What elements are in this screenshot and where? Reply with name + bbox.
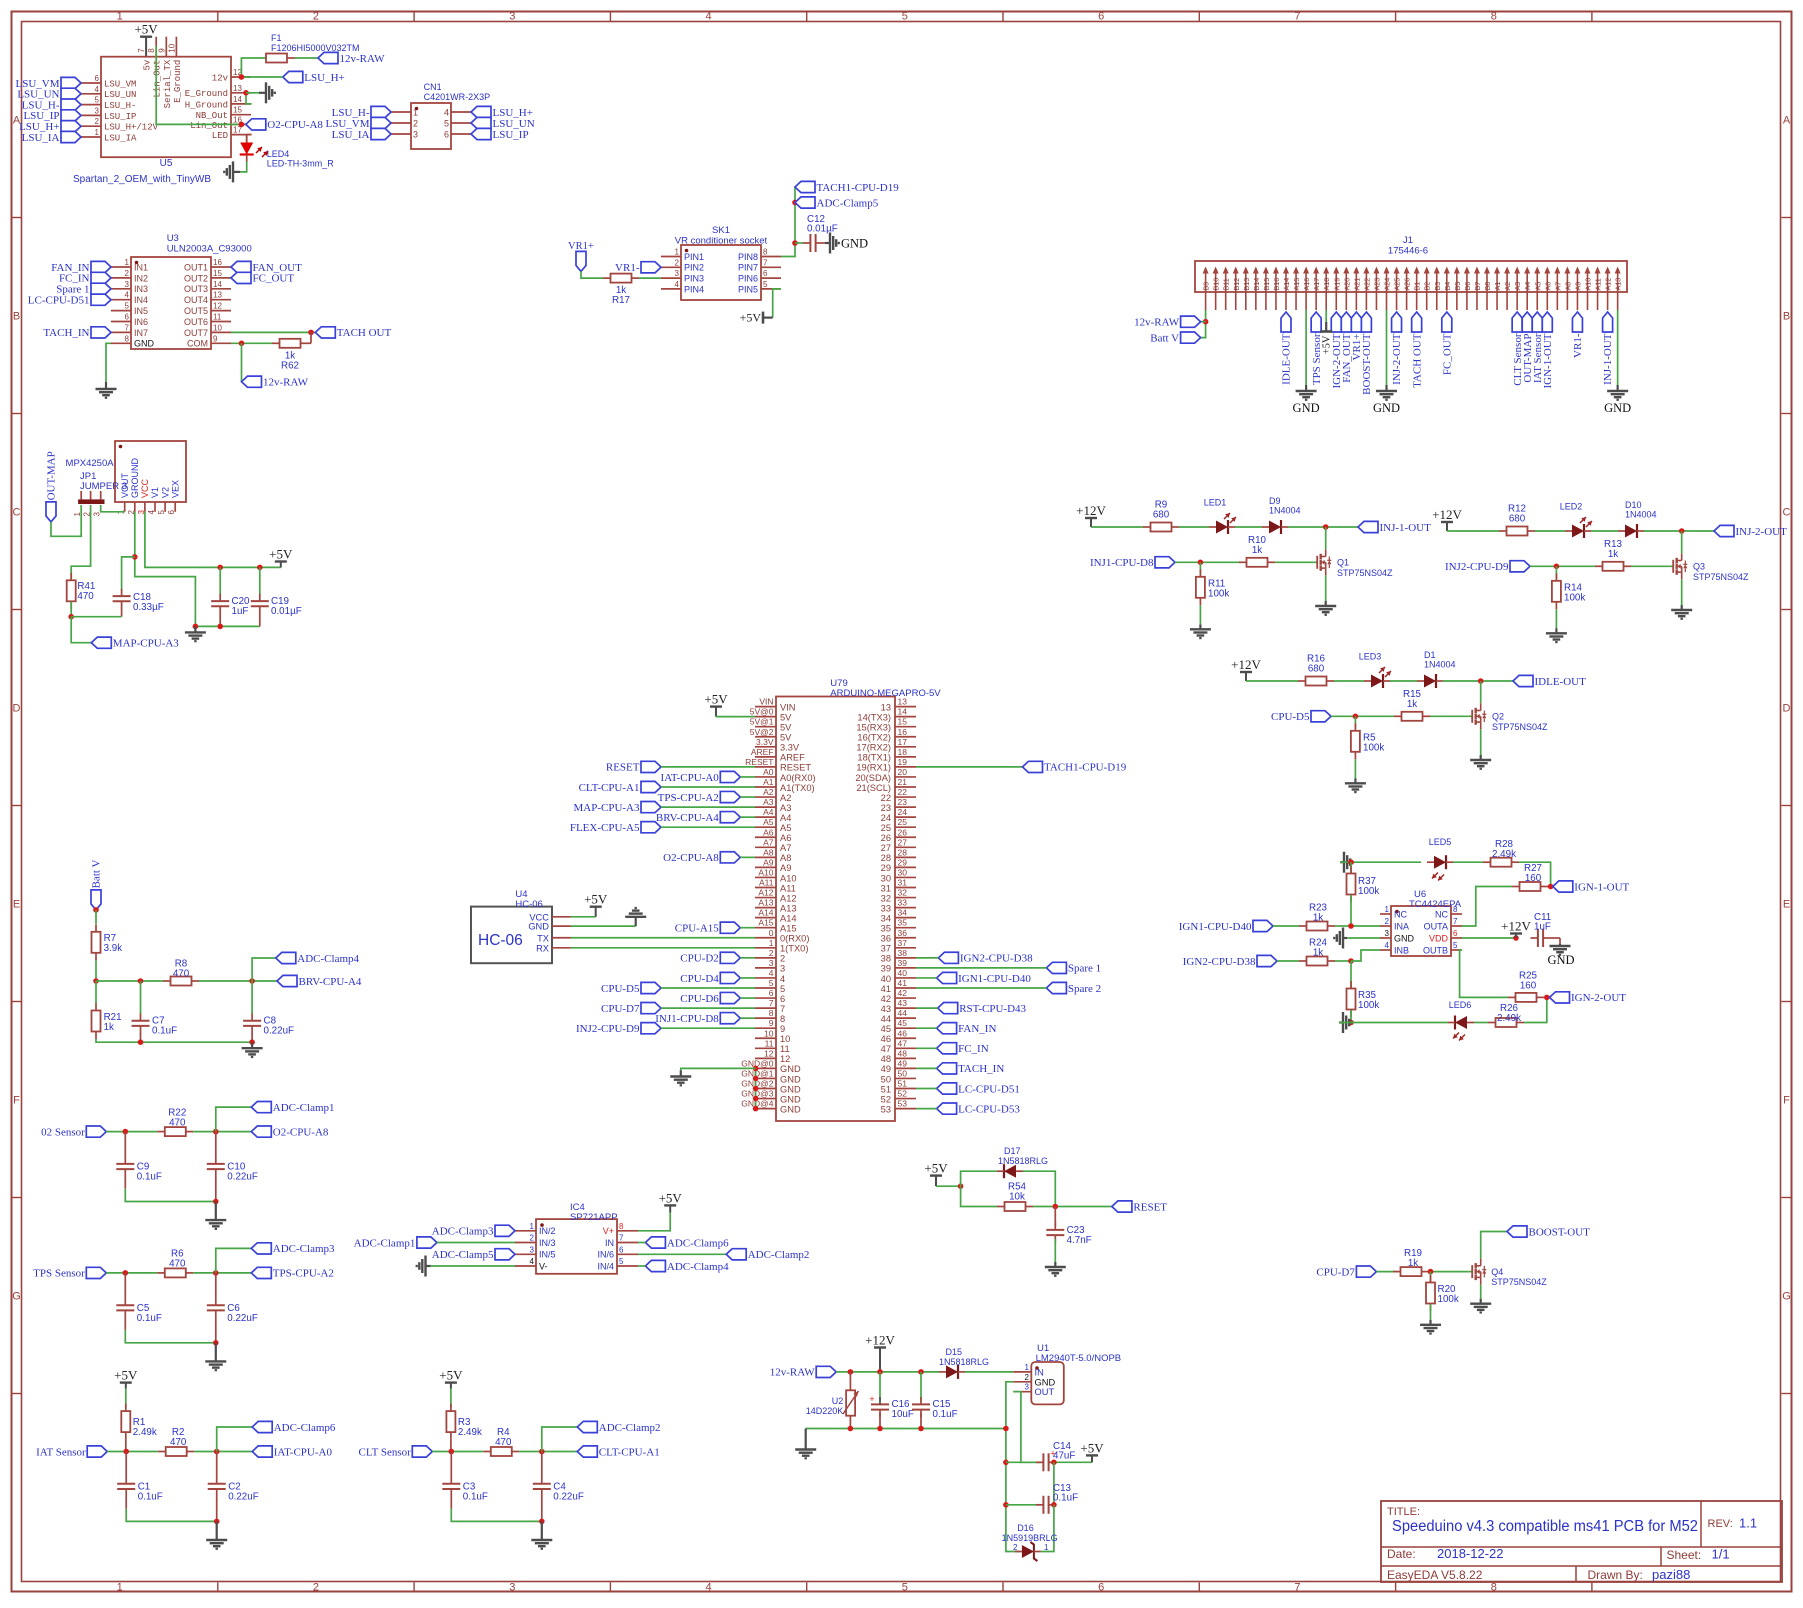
node C-second tap	[213, 1270, 219, 1276]
resistor R20 100k	[1430, 1272, 1432, 1282]
wire drain	[1681, 531, 1683, 553]
svg-text:VR conditioner socket: VR conditioner socket	[675, 236, 768, 247]
svg-text:0.1uF: 0.1uF	[137, 1172, 162, 1183]
LED LED6	[1448, 1000, 1474, 1041]
svg-text:10: 10	[764, 1028, 774, 1038]
svg-text:A3: A3	[780, 803, 791, 813]
svg-text:O2-CPU-A8: O2-CPU-A8	[273, 1126, 329, 1138]
wire to ground	[246, 92, 259, 94]
wire R37 to INA	[1351, 895, 1380, 926]
pin 36	[881, 928, 916, 944]
svg-text:R62: R62	[281, 360, 299, 371]
svg-text:BOOST-OUT: BOOST-OUT	[1361, 333, 1373, 395]
svg-text:RESET: RESET	[780, 763, 811, 773]
svg-text:GND: GND	[1604, 401, 1631, 415]
IC U6 TC4424EPA	[1391, 889, 1462, 956]
pin A10	[1584, 267, 1593, 311]
pin 8 GND	[111, 334, 155, 348]
wire ADC-Clamp1	[437, 1242, 515, 1244]
net flag 12v-RAW	[1134, 316, 1200, 328]
net flag MAP-CPU-A3	[91, 637, 179, 649]
pin 2 PIN2	[661, 258, 704, 272]
svg-text:B3: B3	[1433, 282, 1442, 291]
node C14 right	[1051, 1460, 1057, 1466]
svg-text:Lin_Out: Lin_Out	[153, 60, 163, 98]
svg-text:A0: A0	[763, 767, 774, 777]
pin A15	[755, 918, 797, 934]
net flag INJ-2-OUT	[1391, 312, 1403, 385]
svg-text:2: 2	[780, 954, 785, 964]
net flag BRV-CPU-A4	[656, 812, 740, 824]
svg-text:A15: A15	[758, 918, 773, 928]
svg-text:+5V: +5V	[584, 892, 608, 907]
pin B13	[1242, 267, 1251, 311]
svg-text:A10: A10	[758, 867, 773, 877]
net flag IGN-2-OUT	[1331, 312, 1343, 388]
capacitor C8 0.22uF	[243, 1013, 294, 1036]
svg-text:7: 7	[769, 998, 774, 1008]
svg-text:ADC-Clamp2: ADC-Clamp2	[599, 1422, 661, 1434]
svg-text:D15: D15	[946, 1347, 963, 1357]
svg-text:37: 37	[881, 944, 891, 954]
svg-text:V1: V1	[150, 487, 160, 498]
svg-text:28: 28	[898, 847, 908, 857]
power +5V MPX	[269, 547, 293, 568]
wire C2 column	[216, 1452, 218, 1477]
svg-text:OUT1: OUT1	[184, 262, 208, 272]
svg-text:+12V: +12V	[865, 1333, 895, 1348]
net flag ADC-Clamp5	[432, 1249, 515, 1261]
svg-text:7: 7	[1294, 11, 1300, 23]
node C-first tap	[123, 1449, 129, 1455]
svg-text:FC_OUT: FC_OUT	[1441, 333, 1453, 375]
LED LED1	[1204, 498, 1236, 535]
svg-text:100k: 100k	[1358, 886, 1379, 897]
capacitor C16 10uF polarized	[879, 1372, 881, 1401]
pin 6 VEX	[167, 480, 180, 514]
svg-text:A18: A18	[1322, 278, 1331, 291]
svg-text:0.33µF: 0.33µF	[133, 602, 164, 613]
svg-text:A2: A2	[1503, 282, 1512, 291]
wire C13 right	[1051, 1504, 1054, 1506]
wire C10 column	[215, 1132, 217, 1157]
wire C5 bottom	[124, 1318, 126, 1330]
wire pulldown to ground	[1354, 759, 1356, 778]
IC SK1 VR conditioner socket	[675, 225, 768, 300]
svg-text:D9: D9	[1269, 496, 1281, 506]
svg-text:A9: A9	[780, 863, 791, 873]
svg-text:U2: U2	[832, 1396, 844, 1406]
pin 3 VCC	[137, 478, 150, 514]
wire GROUND pin to C18 and rail	[135, 512, 196, 627]
wire C23 to ground	[1054, 1239, 1056, 1262]
net flag VR1+	[1351, 312, 1363, 360]
net flag TACH OUT	[315, 327, 391, 339]
ground LED4	[224, 161, 240, 182]
svg-text:REV:: REV:	[1708, 1518, 1733, 1530]
net flag LSU_IA	[22, 131, 81, 143]
svg-text:IN/5: IN/5	[539, 1250, 556, 1260]
svg-text:1uF: 1uF	[1534, 922, 1551, 933]
pin 14 OUT3	[184, 280, 231, 294]
jumper JP1 JUMPER 3	[73, 471, 127, 516]
svg-text:TACH_IN: TACH_IN	[43, 327, 89, 339]
pin TX	[537, 933, 571, 943]
svg-text:0: 0	[769, 928, 774, 938]
ground sensor cluster	[206, 1521, 227, 1548]
svg-text:5: 5	[763, 280, 768, 289]
svg-text:1k: 1k	[1408, 1258, 1418, 1269]
svg-text:TACH OUT: TACH OUT	[337, 327, 392, 339]
wire gate row	[1530, 565, 1595, 567]
svg-text:A2: A2	[763, 787, 774, 797]
svg-text:COM: COM	[187, 339, 208, 349]
power +5V U5	[134, 22, 158, 56]
LED LED5	[1427, 837, 1453, 881]
svg-text:ADC-Clamp4: ADC-Clamp4	[297, 953, 359, 965]
capacitor C15 0.1uF	[920, 1372, 922, 1401]
svg-text:48: 48	[881, 1054, 891, 1064]
net flag IDLE-OUT	[1281, 312, 1293, 385]
svg-text:5: 5	[125, 302, 130, 311]
pin 8 NC	[1435, 905, 1462, 919]
pin GND@2	[741, 1079, 801, 1095]
svg-text:160: 160	[1520, 981, 1537, 992]
node R7 bottom	[93, 978, 99, 984]
ground sensor cluster	[531, 1521, 552, 1548]
wire +12V row	[1091, 526, 1143, 528]
svg-text:3: 3	[769, 958, 774, 968]
wire C1 bottom	[125, 1496, 127, 1508]
wire +5V to 5V pin	[716, 716, 755, 718]
node C16 tap	[877, 1369, 883, 1375]
node C-first tap	[123, 1129, 129, 1135]
power +5V CLT Sensor	[439, 1368, 463, 1389]
svg-text:INA: INA	[1394, 921, 1409, 931]
pin 24	[881, 807, 916, 823]
wire C9 bottom	[124, 1176, 126, 1188]
net flag MAP-CPU-A3	[573, 802, 661, 814]
svg-text:2: 2	[413, 119, 418, 129]
power +12V Q1 row	[1076, 503, 1106, 527]
pin 7 OUTA	[1424, 917, 1462, 931]
transistor Q3 STP75NS04Z	[1670, 553, 1749, 582]
svg-text:2: 2	[313, 11, 319, 23]
svg-text:GND: GND	[780, 1064, 801, 1074]
net flag LSU_VM	[15, 77, 81, 89]
node C13 left	[1003, 1502, 1009, 1508]
wire main 12v rail	[836, 1371, 939, 1373]
pin 2 GROUND	[127, 458, 140, 515]
wire LED to diode	[1235, 526, 1262, 528]
node E_Ground	[243, 90, 249, 96]
svg-text:STP75NS04Z: STP75NS04Z	[1491, 1277, 1547, 1287]
svg-text:BRV-CPU-A4: BRV-CPU-A4	[656, 812, 719, 824]
ground J1	[1293, 385, 1320, 415]
svg-text:3: 3	[780, 964, 785, 974]
svg-text:PIN1: PIN1	[684, 252, 704, 262]
svg-text:0.01µF: 0.01µF	[807, 224, 838, 235]
pin 12 OUT5	[184, 302, 231, 316]
svg-text:5V: 5V	[780, 733, 792, 743]
svg-text:26: 26	[898, 827, 908, 837]
svg-text:23: 23	[898, 797, 908, 807]
svg-text:LSU_H+: LSU_H+	[304, 72, 344, 84]
svg-text:680: 680	[1509, 514, 1526, 525]
svg-text:175446-6: 175446-6	[1388, 246, 1428, 257]
svg-text:20(SDA): 20(SDA)	[855, 773, 891, 783]
svg-text:IN/6: IN/6	[597, 1250, 614, 1260]
pin 4 V-	[515, 1257, 548, 1271]
svg-text:17(RX2): 17(RX2)	[856, 743, 891, 753]
svg-text:PIN6: PIN6	[738, 274, 758, 284]
svg-text:VR1-: VR1-	[615, 262, 640, 274]
resistor R7 3.9k	[92, 924, 123, 960]
svg-text:CPU-D6: CPU-D6	[680, 993, 719, 1005]
svg-text:TACH_IN: TACH_IN	[958, 1063, 1004, 1075]
svg-text:D10: D10	[1625, 500, 1642, 510]
wire C1 column	[125, 1452, 127, 1477]
wire	[740, 776, 755, 778]
net flag IAT Sensor	[1532, 312, 1544, 383]
svg-text:A14: A14	[758, 908, 773, 918]
pin A26	[1403, 267, 1412, 311]
wire VR1+ to R17	[581, 271, 603, 278]
svg-text:+12V: +12V	[1432, 507, 1462, 522]
wire ADC-Clamp6 riser	[217, 1427, 253, 1452]
pin 2 GND	[1013, 1373, 1055, 1388]
ground supply rail	[795, 1429, 816, 1459]
svg-text:OUT7: OUT7	[184, 328, 208, 338]
svg-text:45: 45	[898, 1018, 908, 1028]
net flag VR1-	[1572, 312, 1584, 358]
pin A11	[755, 878, 796, 894]
svg-text:CPU-D2: CPU-D2	[680, 953, 719, 965]
power +12V U6	[1501, 919, 1531, 939]
wire GND bus to ground	[681, 1068, 756, 1070]
svg-text:GND: GND	[841, 237, 868, 251]
svg-text:15(RX3): 15(RX3)	[856, 723, 891, 733]
pin B5	[1453, 267, 1462, 311]
svg-text:IN2: IN2	[134, 273, 148, 283]
resistor R26 2.49k	[1488, 1003, 1524, 1027]
wire VCC pin to +5V rail	[145, 512, 281, 568]
svg-text:INJ-1-OUT: INJ-1-OUT	[1380, 522, 1432, 534]
svg-text:20: 20	[898, 767, 908, 777]
svg-text:1/1: 1/1	[1712, 1547, 1730, 1562]
svg-text:26: 26	[881, 833, 891, 843]
svg-text:2: 2	[1013, 1543, 1018, 1552]
svg-text:11: 11	[213, 313, 222, 322]
svg-text:B12: B12	[1232, 278, 1241, 291]
svg-text:B6: B6	[1463, 282, 1472, 291]
pin 0	[755, 928, 809, 944]
resistor R28 2.49k	[1483, 839, 1519, 867]
node rail GND	[193, 624, 199, 630]
pin 4 INB	[1380, 941, 1409, 955]
node GND pin	[753, 1076, 759, 1082]
net flag IGN1-CPU-D40	[937, 972, 1032, 984]
ground U3	[96, 382, 117, 398]
svg-text:8: 8	[1491, 11, 1497, 23]
IC U1 LM2940T-5.0/NOPB	[1031, 1343, 1121, 1404]
svg-text:5: 5	[157, 509, 166, 514]
svg-text:6: 6	[1453, 929, 1458, 938]
net flag RST-CPU-D43	[938, 1003, 1027, 1015]
svg-text:12v-RAW: 12v-RAW	[770, 1367, 816, 1379]
pin AREF	[751, 747, 805, 763]
wire	[916, 977, 937, 979]
wire R to flags	[519, 1451, 577, 1453]
power +5V SK1	[740, 311, 773, 325]
svg-text:A4: A4	[1523, 282, 1532, 291]
node cluster gnd	[214, 1519, 220, 1525]
resistor R1 2.49k	[121, 1404, 157, 1440]
net flag Batt V	[1150, 332, 1200, 344]
transistor Q1 STP75NS04Z	[1314, 549, 1393, 578]
svg-text:4: 4	[705, 11, 711, 23]
net flag LSU_IP	[471, 128, 529, 140]
svg-text:6: 6	[125, 313, 130, 322]
svg-text:IGN2-CPU-D38: IGN2-CPU-D38	[960, 953, 1033, 965]
svg-text:11: 11	[765, 1038, 774, 1048]
ground U6 GND pin	[1347, 937, 1380, 939]
net flag ADC-Clamp5	[795, 197, 879, 209]
svg-text:1k: 1k	[1313, 948, 1323, 959]
pin 5	[444, 119, 471, 129]
svg-text:100k: 100k	[1208, 588, 1229, 599]
svg-text:B: B	[13, 311, 20, 323]
pin B2	[1423, 267, 1432, 311]
pin 13	[881, 697, 916, 713]
pin 2	[391, 119, 418, 129]
svg-text:50: 50	[881, 1074, 891, 1084]
svg-text:A11: A11	[759, 878, 774, 888]
power +5V U79	[704, 692, 728, 717]
node IGN-1-OUT	[1548, 884, 1554, 890]
node C15 tap	[918, 1369, 924, 1375]
svg-text:1(TX0): 1(TX0)	[780, 944, 808, 954]
svg-text:3.3V: 3.3V	[780, 743, 800, 753]
svg-text:B5: B5	[1453, 282, 1462, 291]
wire U79 GND bus	[755, 1068, 757, 1108]
svg-text:LED5: LED5	[1429, 837, 1452, 847]
svg-text:10: 10	[213, 323, 222, 332]
svg-text:IN/2: IN/2	[539, 1226, 556, 1236]
wire U1 OUT down	[1013, 1392, 1041, 1463]
svg-text:A14: A14	[1282, 278, 1291, 291]
wire	[916, 1108, 937, 1110]
wire pulldown to ground	[1199, 605, 1201, 624]
wire pin12 to LSU_H+ flag	[252, 76, 283, 78]
pin 18	[857, 747, 916, 763]
pin VIN	[755, 697, 796, 713]
svg-text:LSU_UN: LSU_UN	[104, 90, 136, 100]
pin 34	[881, 908, 916, 924]
wire to C12	[795, 242, 803, 244]
wire	[740, 997, 755, 999]
net flag 02 Sensor	[41, 1126, 106, 1138]
svg-text:pazi88: pazi88	[1652, 1567, 1690, 1582]
pin 1 IN	[1013, 1363, 1044, 1378]
power +5V IC4	[659, 1190, 683, 1212]
svg-text:34: 34	[881, 913, 891, 923]
svg-text:4: 4	[125, 291, 130, 300]
pin B11	[1222, 267, 1231, 311]
pin 4 V1	[147, 487, 160, 514]
svg-text:12: 12	[213, 302, 222, 311]
resistor R9 680	[1143, 500, 1179, 532]
svg-text:ADC-Clamp2: ADC-Clamp2	[748, 1249, 810, 1261]
wire source to ground	[1480, 729, 1482, 755]
svg-text:EasyEDA V5.8.22: EasyEDA V5.8.22	[1387, 1568, 1483, 1582]
svg-text:VR1+: VR1+	[568, 241, 594, 252]
wire C3 bottom	[450, 1496, 452, 1508]
node rail C15	[918, 1426, 924, 1432]
ground MPX rail	[185, 626, 206, 641]
wire	[916, 987, 1046, 989]
svg-text:IN4: IN4	[134, 295, 148, 305]
pin 31	[881, 878, 916, 894]
diode D1 1N4004	[1417, 650, 1456, 688]
svg-text:5V@2: 5V@2	[750, 727, 774, 737]
net flag IAT Sensor	[36, 1446, 107, 1458]
svg-text:B4: B4	[1443, 282, 1452, 291]
wire to LED	[1179, 526, 1209, 528]
svg-text:3.9k: 3.9k	[104, 943, 123, 954]
svg-text:1N4004: 1N4004	[1269, 506, 1301, 516]
pin 11	[755, 1038, 790, 1054]
svg-text:2: 2	[95, 117, 100, 126]
resistor R54 10k	[997, 1182, 1033, 1212]
wire C15 bottom	[920, 1413, 922, 1429]
pin 3 OUT	[1013, 1383, 1054, 1398]
svg-text:CPU-D4: CPU-D4	[680, 973, 719, 985]
svg-text:NB_Out: NB_Out	[196, 111, 228, 121]
svg-text:40: 40	[898, 968, 908, 978]
svg-text:A0(RX0): A0(RX0)	[780, 773, 816, 783]
svg-text:B10: B10	[1212, 278, 1221, 291]
pin 35	[881, 918, 916, 934]
wire	[661, 786, 755, 788]
node rail C16	[877, 1426, 883, 1432]
node gate junction	[1198, 560, 1204, 566]
net flag ADC-Clamp4	[276, 952, 360, 964]
svg-text:39: 39	[898, 958, 908, 968]
svg-text:+5V: +5V	[1080, 1440, 1104, 1455]
svg-text:A15: A15	[1292, 278, 1301, 291]
pin 42	[881, 988, 916, 1004]
svg-text:Lin_Out: Lin_Out	[190, 121, 228, 131]
svg-text:1N5818RLG: 1N5818RLG	[939, 1357, 989, 1367]
svg-text:D17: D17	[1004, 1146, 1021, 1156]
node VDD junction	[1513, 935, 1519, 941]
svg-text:12: 12	[764, 1048, 774, 1058]
pin 51	[881, 1079, 916, 1095]
net flag RESET	[606, 761, 661, 773]
pin 16 Lin_Out	[190, 115, 251, 130]
svg-text:0.22uF: 0.22uF	[228, 1492, 259, 1503]
wire C6 column	[215, 1273, 217, 1298]
svg-text:MAP-CPU-A3: MAP-CPU-A3	[573, 802, 640, 814]
svg-text:47: 47	[898, 1038, 908, 1048]
svg-text:A1: A1	[1493, 282, 1502, 291]
net flag CPU-D2	[680, 952, 740, 964]
pin B1	[1413, 267, 1422, 311]
svg-text:FAN_IN: FAN_IN	[958, 1023, 996, 1035]
net flag INJ-1-OUT	[1358, 521, 1431, 533]
node cluster gnd	[213, 1199, 219, 1205]
